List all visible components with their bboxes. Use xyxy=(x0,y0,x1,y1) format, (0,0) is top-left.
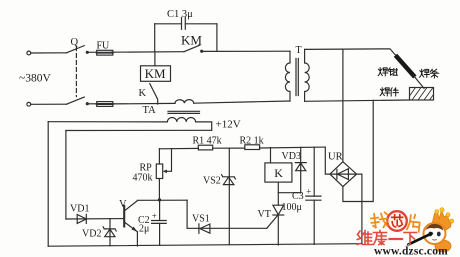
transformer T primary xyxy=(285,51,290,101)
svg-text:UR: UR xyxy=(328,152,343,163)
watermark logo xyxy=(357,208,453,257)
svg-text:K: K xyxy=(139,88,147,99)
node Q bottom contact xyxy=(86,103,88,105)
svg-text:+: + xyxy=(152,211,157,221)
fuse FU bottom xyxy=(97,102,113,107)
zhao char xyxy=(370,212,388,229)
wire collector drop xyxy=(186,200,188,228)
wire K to VD3 bottom xyxy=(278,192,300,194)
thyristor VT xyxy=(273,205,284,245)
switch K blade xyxy=(150,84,158,104)
svg-text:KM: KM xyxy=(181,32,202,47)
mascot pen xyxy=(409,234,432,245)
wire UR AC1 drop xyxy=(342,49,344,162)
label hantiao welding rod xyxy=(420,69,439,78)
svg-text:VD3: VD3 xyxy=(282,151,301,162)
svg-text:+: + xyxy=(306,187,311,197)
label hanjian workpiece xyxy=(380,88,398,96)
svg-text:470k: 470k xyxy=(133,172,153,183)
capacitor C1 xyxy=(182,17,186,29)
wire TA to transformer T xyxy=(194,101,290,103)
transformer T core xyxy=(296,59,298,96)
wire secondary bottom xyxy=(305,100,410,101)
rectifier bridge UR xyxy=(330,162,357,187)
transistor V xyxy=(124,201,137,246)
svg-text:T: T xyxy=(296,45,302,56)
wire UR AC2 path xyxy=(343,100,373,201)
wire to FU xyxy=(88,51,96,53)
switch KM contact blade xyxy=(184,45,200,52)
resistor R2 xyxy=(245,145,260,150)
potentiometer RP wiper xyxy=(165,149,172,172)
wire FU2 to TA xyxy=(111,102,175,105)
potentiometer RP body xyxy=(156,164,162,179)
switch Q dashed link xyxy=(75,47,77,97)
welding electrode holder xyxy=(397,57,413,75)
svg-text:2μ: 2μ xyxy=(139,224,149,235)
wire C1 branch right riser xyxy=(216,24,218,52)
svg-text:+12V: +12V xyxy=(216,119,241,131)
workpiece hatched block xyxy=(410,88,434,101)
svg-text:100μ: 100μ xyxy=(282,202,302,213)
wire C1 branch top right xyxy=(185,23,217,25)
wire bottom rail xyxy=(48,244,362,247)
wire RP corner to R1 xyxy=(159,147,198,149)
wire collector xyxy=(137,199,187,201)
wire electrode tip xyxy=(413,75,424,88)
red circle chip xyxy=(387,211,407,231)
wire gate diagonal xyxy=(267,216,278,229)
wire KM contact to transformer xyxy=(203,50,290,52)
resistor R1 xyxy=(198,145,212,150)
svg-text:VD1: VD1 xyxy=(70,203,89,214)
wire to FU2 xyxy=(88,103,96,105)
switch Q bottom blade xyxy=(67,97,85,104)
svg-text:R1 47k: R1 47k xyxy=(193,136,222,147)
mascot head xyxy=(424,223,446,244)
diode inside UR xyxy=(332,169,356,180)
svg-text:K: K xyxy=(274,166,283,180)
xin char xyxy=(392,215,403,227)
pian char xyxy=(407,214,421,232)
wire UR DC- to bottom rail xyxy=(357,174,362,244)
weiku chars red xyxy=(357,231,416,245)
fuse FU top xyxy=(97,50,113,55)
diode VS1 xyxy=(199,224,210,233)
svg-text:FU: FU xyxy=(97,41,111,52)
node collector junction xyxy=(158,198,161,201)
svg-text:KM: KM xyxy=(145,66,166,81)
svg-text:C1 3μ: C1 3μ xyxy=(167,9,193,20)
capacitor C2 xyxy=(152,200,167,245)
svg-text:VS2: VS2 xyxy=(203,176,221,187)
svg-text:C3: C3 xyxy=(292,191,304,202)
mascot eyes xyxy=(428,232,432,237)
node KM contact xyxy=(201,50,203,52)
transformer TA secondary winding xyxy=(167,117,195,121)
wire C1 branch top left xyxy=(155,23,182,25)
transformer T secondary xyxy=(305,49,310,101)
diode VD1 xyxy=(77,215,86,224)
switch Q top blade xyxy=(67,46,85,53)
potentiometer RP lead xyxy=(158,149,160,164)
node Q top contact xyxy=(86,51,88,53)
wire KM coil lead xyxy=(154,52,156,66)
terminal L2 xyxy=(27,102,31,106)
wire UR DC+ to rail xyxy=(325,147,330,174)
wire VD1 line xyxy=(66,218,124,220)
svg-text:TA: TA xyxy=(143,105,157,116)
wire R2 to UR xyxy=(260,146,326,149)
capacitor C3 xyxy=(306,147,321,244)
wire FU to KM junction xyxy=(111,51,184,54)
wire C1 branch left riser xyxy=(154,24,156,52)
relay coil KM xyxy=(141,66,171,82)
wire R1 to R2 xyxy=(213,147,245,149)
zener diode VS2 xyxy=(222,175,236,185)
svg-text:~380V: ~380V xyxy=(19,73,51,85)
wire RP to collector node xyxy=(158,179,160,200)
svg-text:www.dzsc.com: www.dzsc.com xyxy=(374,246,448,257)
svg-text:Q: Q xyxy=(71,37,79,48)
relay coil K lead xyxy=(270,148,272,163)
label hanqian welding clamp xyxy=(378,68,397,76)
mascot hair xyxy=(425,224,444,231)
relay coil K xyxy=(265,163,292,182)
terminal L1 xyxy=(27,51,31,55)
svg-text:R2 1k: R2 1k xyxy=(240,135,264,146)
svg-text:VD2: VD2 xyxy=(82,228,101,239)
wire K bottom lead xyxy=(277,182,279,205)
wire TA secondary left xyxy=(48,121,167,123)
transformer TA core xyxy=(168,111,200,113)
svg-text:VS1: VS1 xyxy=(192,214,210,225)
wire ground-side left drop xyxy=(47,122,49,247)
svg-text:VT: VT xyxy=(258,209,271,220)
wire secondary top to electrode xyxy=(305,49,398,57)
mascot body xyxy=(435,240,451,252)
wire +12V drop to VD1 xyxy=(65,131,67,220)
wire +12V rail xyxy=(66,129,212,131)
wire TA secondary right xyxy=(196,122,212,130)
transformer TA primary winding xyxy=(175,100,194,104)
mascot crown hand xyxy=(432,211,452,231)
wire VS2 drop xyxy=(228,148,230,245)
wire L2 lead xyxy=(31,103,67,105)
diode VD3 xyxy=(295,147,306,192)
wire L1 lead xyxy=(31,52,67,54)
wire VS1 line xyxy=(187,227,267,229)
svg-text:V: V xyxy=(119,199,127,210)
diode VD2 xyxy=(103,219,116,246)
